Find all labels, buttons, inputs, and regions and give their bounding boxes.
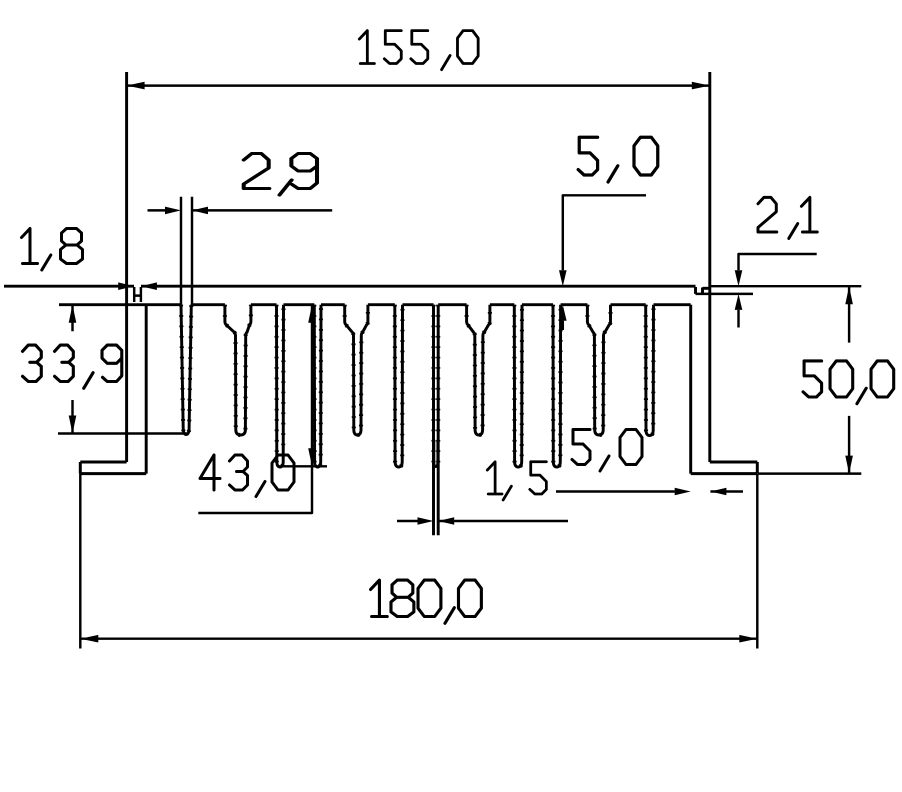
slot E (thin, deep) [395,305,403,467]
180,0 [80,474,757,649]
1,5 center [397,520,568,522]
left wall outer + 155 ext [125,72,128,462]
right 2.1 notch [696,287,703,294]
slot G (mouth, short) [467,305,490,435]
slot A (2.9 wide, short) [181,305,191,435]
root line segments (fin tops) [59,303,691,306]
slot J (mouth, short) [587,305,610,435]
slot F (center thin deep + 1,5 ext lines down to 535) [434,305,439,536]
5,0 top (plate thickness) [563,195,646,270]
2,1 right [739,254,817,270]
left 1.8 groove [134,287,141,302]
top surface line (left part incl. 1,8 dim tail) [4,285,134,288]
155,0 [127,84,710,86]
slot C2 (thin, deep) [314,305,321,467]
5,0 bottom right (leg thickness) [556,490,743,492]
slot B (mouth, short) [225,305,251,435]
slot K (thin, short) [646,305,654,436]
top surface main [141,285,696,288]
2,9 top [181,197,192,305]
slot C (thin, deep) [277,305,284,467]
50,0 right [711,286,861,473]
33,9 left [71,306,73,434]
right wall outer + 155 ext [708,72,711,462]
slot H (thin, deep) [514,305,522,467]
43,0 [198,306,312,513]
slot I (thin, deep) [553,305,561,467]
1,8 left [118,282,134,290]
top surface right lip after notch [703,287,710,290]
slot D (mouth, short) [345,305,368,435]
left foot [80,305,146,474]
wall texture overlay [181,305,654,467]
right foot [691,305,758,474]
